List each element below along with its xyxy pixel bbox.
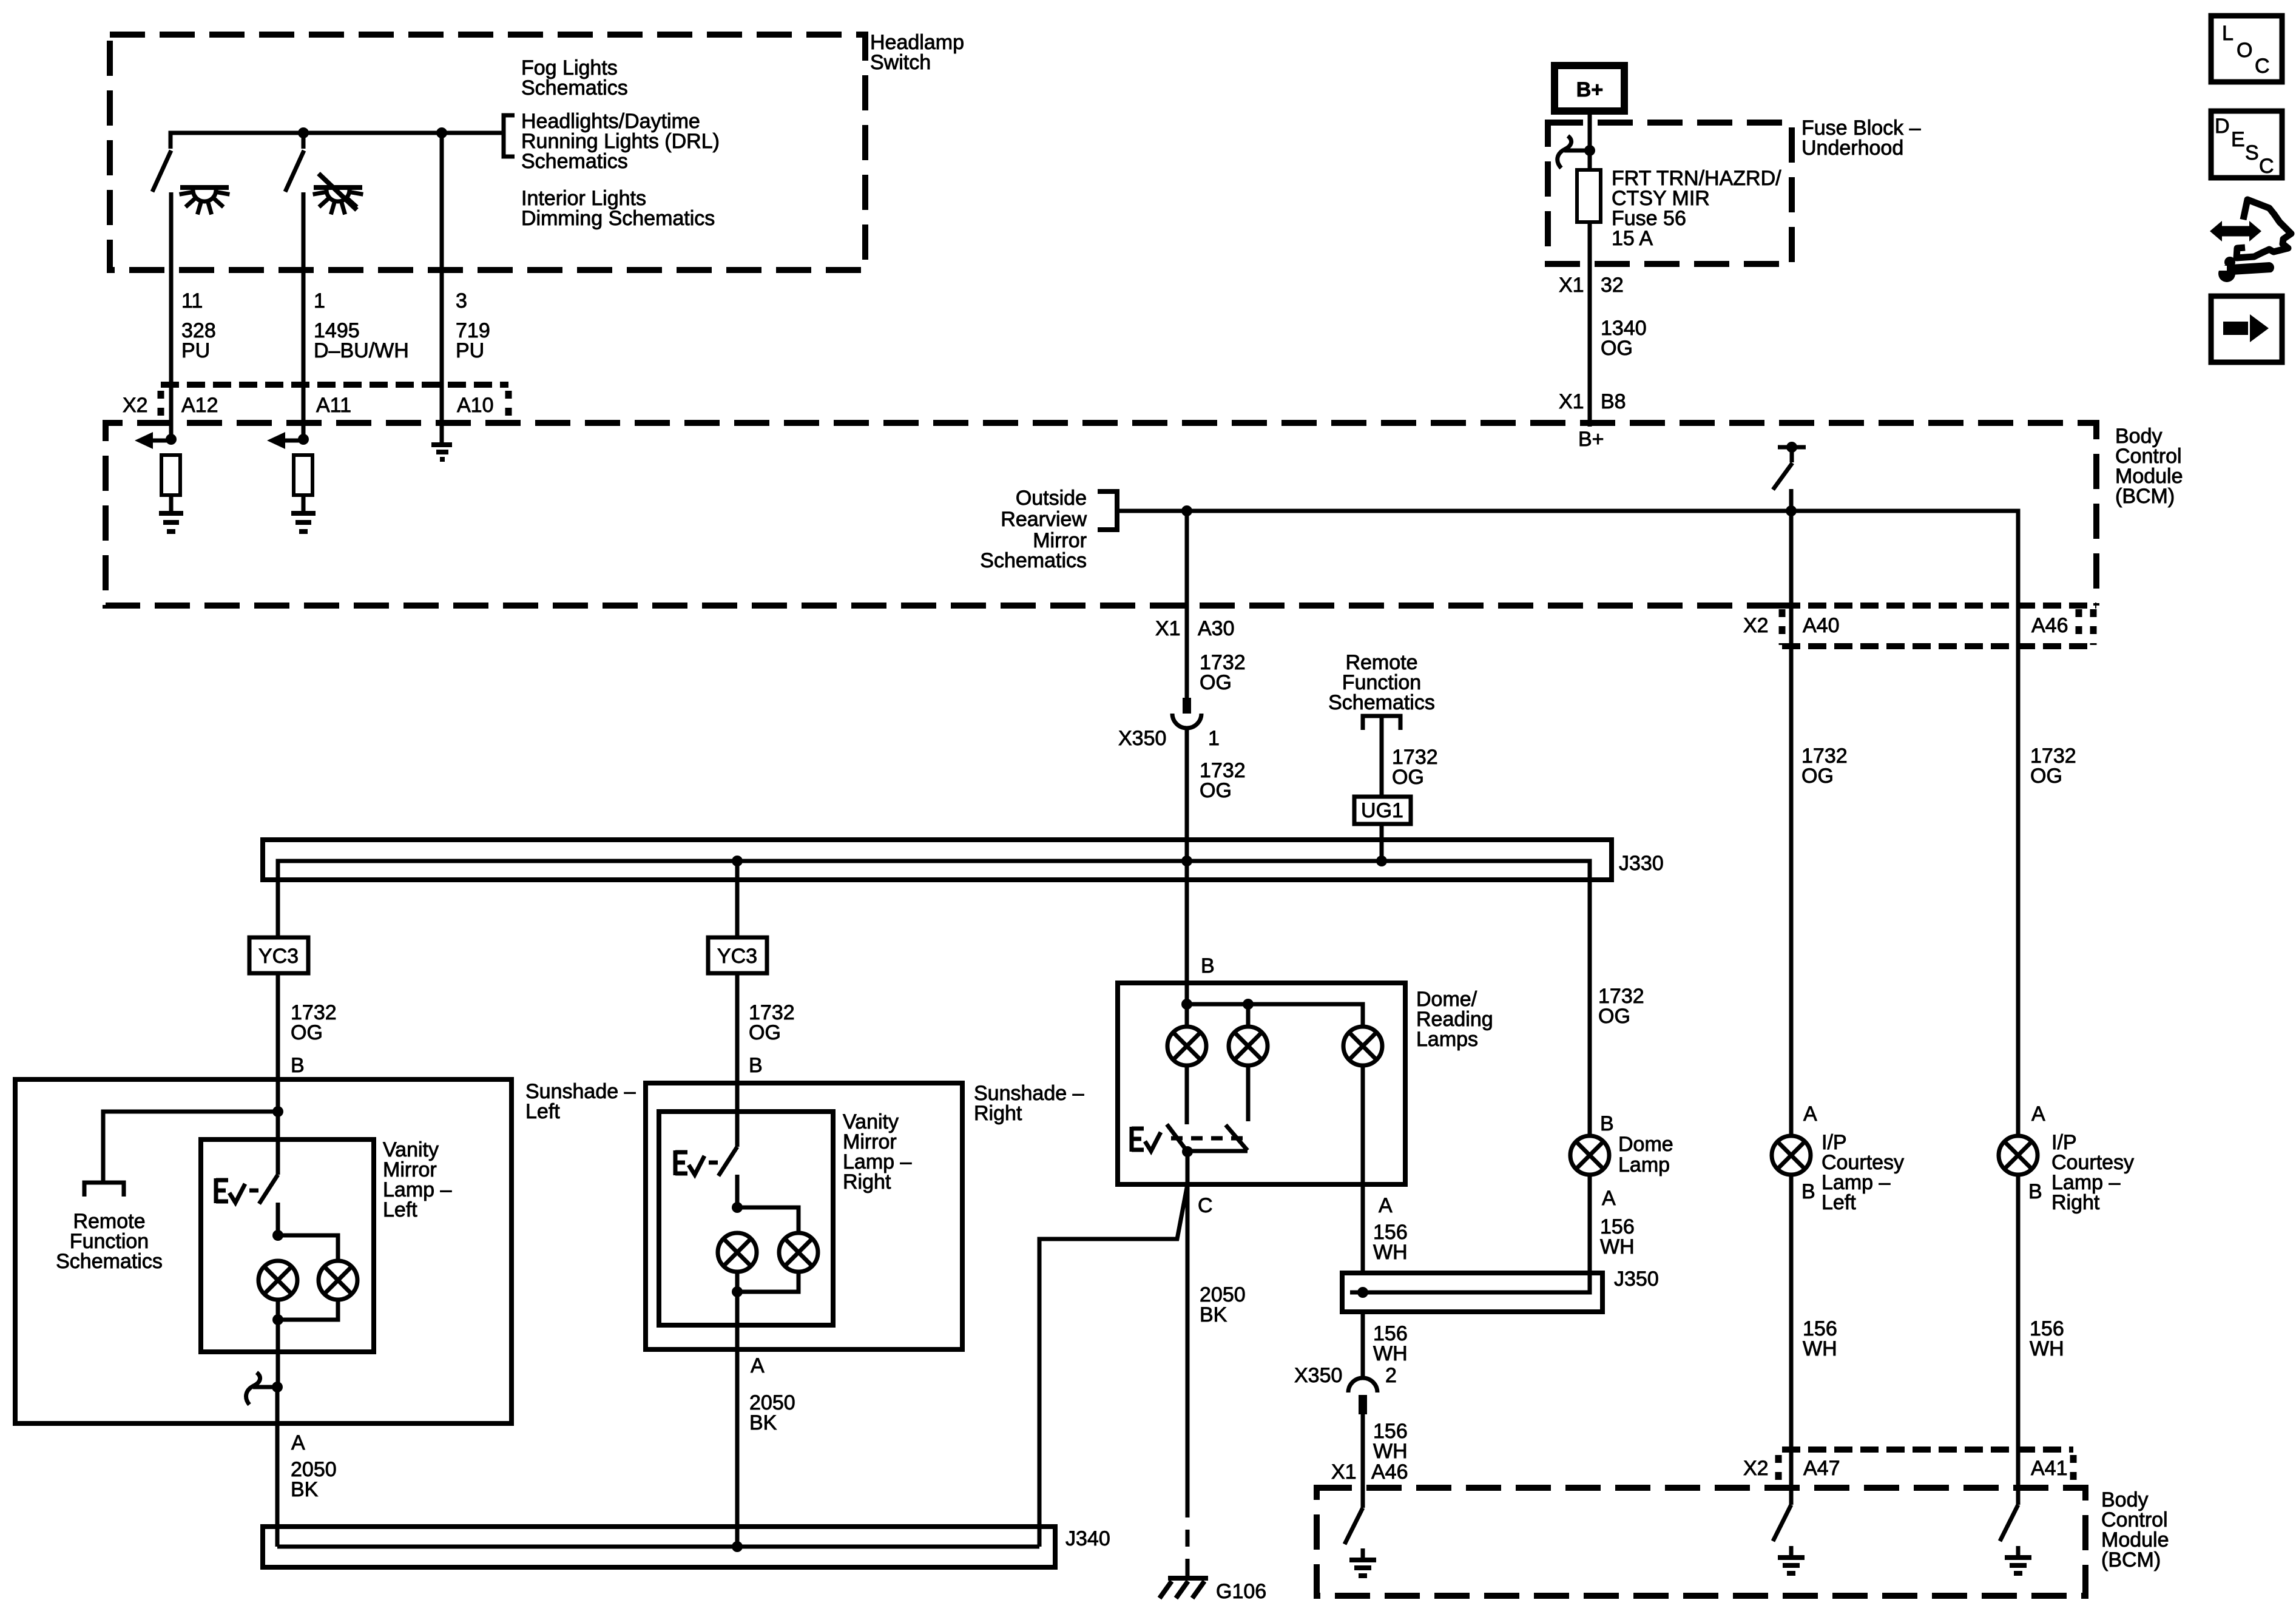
wire: pin 11 down to BCM: [169, 192, 174, 439]
svg-text:A46: A46: [1371, 1460, 1408, 1484]
fuse block underhood label: [1801, 116, 1921, 160]
splice pack J340 outline: [263, 1527, 1055, 1567]
svg-text:A46: A46: [2031, 614, 2068, 637]
svg-text:A: A: [1803, 1102, 1817, 1126]
svg-text:OG: OG: [1801, 765, 1834, 788]
svg-text:B: B: [749, 1054, 763, 1077]
switch to ground (A41): [2000, 1505, 2018, 1541]
wire: pin 1 down to BCM: [302, 192, 306, 439]
option connector UG1 box: [1354, 797, 1411, 824]
wire: vanity switch left to lamps: [276, 1203, 280, 1235]
outside rearview mirror schematics text: [980, 487, 1087, 572]
svg-text:S: S: [2245, 141, 2259, 164]
node junction dome feed 2: [1243, 999, 1254, 1010]
lamp dome bulb 2: [1229, 1027, 1268, 1065]
dome reading lamps label: [1416, 988, 1493, 1051]
wire: courtesy left down to A47: [1789, 1175, 1794, 1505]
wire: pin 3 down to ground: [440, 133, 444, 444]
svg-text:A10: A10: [457, 394, 494, 417]
wire: YC3 left down to sunshade left: [276, 973, 280, 1112]
fuse block underhood dashed box: [1548, 123, 1792, 264]
connector label X1 B8: [1559, 390, 1626, 413]
splice pack J350 internal bus and riser: [1350, 1175, 1590, 1292]
svg-text:Left: Left: [383, 1198, 417, 1221]
wire: stub to reading bulb 2: [1246, 1004, 1251, 1026]
lamp dome bulb 3: [1343, 1027, 1382, 1065]
wire: vanity right bulbs bottom join: [737, 1272, 799, 1292]
svg-text:Left: Left: [1822, 1191, 1856, 1214]
wire: dome lamps internal feed: [1187, 1004, 1363, 1026]
svg-text:OG: OG: [1200, 779, 1232, 802]
svg-text:WH: WH: [1600, 1235, 1635, 1258]
svg-text:OG: OG: [1200, 671, 1232, 694]
svg-text:WH: WH: [2030, 1337, 2064, 1360]
node junction A11 wire: [298, 434, 309, 445]
node junction vanity left lamps top: [272, 1230, 283, 1241]
svg-text:B: B: [2028, 1180, 2042, 1203]
svg-text:B: B: [291, 1054, 305, 1077]
wire label 2050 BK (dome C): [1200, 1283, 1246, 1326]
svg-text:J330: J330: [1619, 852, 1664, 875]
svg-text:E: E: [2231, 128, 2245, 151]
splice pack J350 outline: [1342, 1273, 1602, 1312]
switch SW2 interior dimming blade: [285, 150, 304, 192]
lamp icon 1 (panel lamp symbol): [180, 187, 230, 214]
node junction J330 UG1 wire: [1376, 856, 1387, 866]
wire label 1732 OG (A30): [1200, 651, 1246, 694]
wire: courtesy right down to A41: [2016, 1175, 2021, 1505]
ground inside BCM (A46): [1349, 1548, 1376, 1576]
connector label X1 32: [1559, 274, 1624, 297]
icon LOC box: [2211, 16, 2282, 82]
wire: C down toward G106: [1186, 1184, 1190, 1501]
wire label 156 WH (A41): [2030, 1317, 2064, 1360]
wire: A30 output down: [1185, 511, 1189, 698]
svg-text:PU: PU: [181, 339, 210, 362]
node junction sunshade left feed: [272, 1106, 283, 1117]
resistor (A12 load): [161, 455, 180, 495]
icon wiring repair harness outline: [2237, 200, 2291, 258]
connector labels X2 A12 A11 A10: [123, 394, 494, 417]
svg-text:BK: BK: [1200, 1303, 1227, 1326]
svg-text:1: 1: [314, 289, 325, 312]
svg-text:B+: B+: [1578, 428, 1604, 451]
wire: branch to remote function bracket: [103, 1112, 278, 1183]
node junction vanity right lamps bottom: [732, 1286, 743, 1297]
node junction on bus (wire 3): [436, 127, 447, 138]
wire: sunshade left A down to J340: [275, 1387, 280, 1547]
svg-text:Lamps: Lamps: [1416, 1028, 1478, 1051]
svg-text:B: B: [1600, 1112, 1614, 1135]
body control module BCM bottom dashed outline: [1317, 1488, 2085, 1596]
dome lamp label: [1618, 1133, 1673, 1176]
lamp dome lamp: [1570, 1136, 1609, 1175]
wire label 156 WH (bulb3): [1373, 1221, 1408, 1264]
IP courtesy lamp left label: [1822, 1131, 1904, 1214]
wire label 1732 OG (UG1): [1392, 746, 1438, 789]
wire: UG1 to J330 splice: [1380, 824, 1384, 861]
svg-text:Schematics: Schematics: [56, 1250, 163, 1273]
lamp IP courtesy lamp left: [1772, 1136, 1811, 1175]
bracket to DRL schematics: [504, 115, 515, 157]
wire label 328 PU: [181, 319, 216, 362]
node junction vanity left lamps bottom: [272, 1314, 283, 1325]
dome switch EV symbol: [1132, 1127, 1161, 1152]
lamp vanity left bulb 1: [258, 1261, 297, 1300]
wire label 1732 OG (right YC3): [749, 1001, 795, 1044]
connector labels X2 A47 A41: [1743, 1457, 2068, 1480]
wire label 719 PU: [456, 319, 490, 362]
wire: bulb2 down stub: [1246, 1065, 1251, 1121]
svg-text:C: C: [2255, 55, 2270, 78]
vanity mirror lamp left label: [383, 1138, 451, 1221]
dome switch contact bar: [1187, 1149, 1248, 1153]
ground under A11 resistor: [291, 495, 316, 532]
switch SW2 stub: [302, 133, 306, 149]
svg-text:BK: BK: [749, 1411, 777, 1434]
svg-text:Right: Right: [974, 1102, 1022, 1125]
svg-text:Dome: Dome: [1618, 1133, 1673, 1156]
wire: J350 down to X350-2: [1361, 1312, 1365, 1378]
remote function schematics text (UG1): [1328, 651, 1435, 714]
vanity switch right blade: [718, 1147, 737, 1176]
svg-text:A30: A30: [1198, 617, 1235, 640]
wire: vanity left down to clip: [276, 1320, 280, 1387]
fuse 56 value label: [1612, 167, 1781, 250]
svg-text:X2: X2: [1743, 1457, 1769, 1480]
svg-text:15 A: 15 A: [1612, 227, 1653, 250]
svg-text:Right: Right: [2051, 1191, 2100, 1214]
BCM label top right: [2115, 425, 2183, 508]
node junction rail to A30: [1181, 505, 1192, 516]
vanity switch left EV symbol: [216, 1178, 258, 1203]
connector label X1 A46: [1331, 1460, 1408, 1484]
node junction J340: [732, 1541, 743, 1552]
wire: remote function feed to UG1: [1380, 716, 1384, 797]
svg-text:A47: A47: [1803, 1457, 1840, 1480]
svg-text:11: 11: [181, 289, 203, 312]
fog lights schematics reference text: [521, 56, 628, 100]
connector row X2 A12 A11 A10 dotted box: [161, 385, 508, 417]
svg-text:Rearview: Rearview: [1001, 508, 1087, 531]
svg-text:BK: BK: [291, 1478, 319, 1501]
svg-text:(BCM): (BCM): [2101, 1548, 2161, 1571]
vanity mirror lamp right box: [659, 1112, 833, 1325]
connector label X1 A30: [1155, 617, 1235, 640]
svg-text:A: A: [1602, 1187, 1616, 1210]
ground under A12 resistor: [159, 495, 183, 532]
svg-text:Right: Right: [843, 1170, 891, 1193]
vanity switch right EV symbol: [675, 1150, 718, 1175]
svg-text:X1: X1: [1155, 617, 1181, 640]
wire: X350-2 down to BCM A46: [1361, 1414, 1365, 1508]
lamp vanity right bulb 2: [779, 1233, 818, 1272]
wire: J330 to YC3 right: [735, 861, 740, 937]
wire label 156 WH (A47): [1803, 1317, 1837, 1360]
svg-text:X2: X2: [123, 394, 148, 417]
splice pack J330 internal bus and risers: [278, 861, 1590, 1136]
svg-text:A12: A12: [181, 394, 218, 417]
svg-text:A40: A40: [1803, 614, 1840, 637]
icon wiring repair wrench: [2212, 257, 2274, 282]
svg-text:B8: B8: [1601, 390, 1626, 413]
wire: vanity switch right to lamps: [735, 1175, 740, 1207]
node junction vanity right lamps top: [732, 1202, 743, 1213]
svg-text:L: L: [2222, 22, 2234, 45]
wire: courtesy rail inside BCM: [1117, 511, 2018, 1135]
svg-text:X350: X350: [1118, 727, 1166, 750]
svg-text:OG: OG: [1601, 337, 1633, 360]
connector X350 pin 2: [1348, 1378, 1377, 1414]
wire label 156 WH (dome lamp): [1600, 1215, 1635, 1258]
node junction rail to A40: [1786, 505, 1797, 516]
ground A10: [431, 445, 452, 459]
connector label X350 2: [1294, 1364, 1397, 1387]
chassis ground G106: [1160, 1578, 1208, 1598]
svg-text:J340: J340: [1065, 1527, 1110, 1550]
headlamp switch label: [870, 31, 964, 74]
svg-text:A41: A41: [2031, 1457, 2068, 1480]
svg-text:YC3: YC3: [717, 945, 757, 968]
svg-text:PU: PU: [456, 339, 484, 362]
wire: C jog to J340: [1039, 1184, 1187, 1547]
B+ power symbol box: [1555, 66, 1624, 111]
svg-text:OG: OG: [1392, 766, 1424, 789]
sunshade right label: [974, 1082, 1084, 1125]
svg-text:Schematics: Schematics: [521, 76, 628, 100]
dome switch blade 2: [1226, 1125, 1248, 1150]
wire: vanity left bulbs bottom join: [278, 1300, 338, 1320]
svg-text:G106: G106: [1216, 1580, 1266, 1603]
arrow out (A11 signal): [267, 432, 303, 449]
node junction J330 A30 wire: [1181, 856, 1192, 866]
svg-text:A: A: [291, 1431, 305, 1454]
node junction on bus (switch 2): [298, 127, 309, 138]
wire label 2050 BK (left): [291, 1458, 337, 1501]
svg-text:32: 32: [1601, 274, 1624, 297]
wire dashed to G106: [1186, 1501, 1190, 1576]
svg-text:1: 1: [1208, 727, 1220, 750]
option connector YC3 left: [249, 937, 308, 973]
svg-text:A: A: [1379, 1194, 1393, 1217]
dome switch blade 1: [1167, 1124, 1187, 1152]
svg-text:OG: OG: [2030, 765, 2062, 788]
remote function schematics text (left): [56, 1210, 163, 1273]
svg-text:X2: X2: [1743, 614, 1769, 637]
svg-text:Schematics: Schematics: [1328, 691, 1435, 714]
wire label 156 WH (A46): [1373, 1420, 1408, 1463]
connector X350 pin 1: [1172, 698, 1201, 728]
option connector YC3 right: [708, 937, 767, 973]
wire: branch to right bulb (right vanity): [737, 1207, 799, 1232]
wire: branch to right bulb (left vanity): [278, 1235, 338, 1260]
wire label 1732 OG (dome lamp feed): [1598, 985, 1644, 1028]
bracket from remote function schematics: [1363, 716, 1400, 730]
svg-text:X1: X1: [1559, 390, 1584, 413]
svg-text:A: A: [2031, 1102, 2045, 1126]
switch inside BCM (B+ rail): [1773, 442, 1806, 511]
wire label 156 WH (below J350): [1373, 1322, 1408, 1365]
svg-text:YC3: YC3: [258, 945, 299, 968]
clip tap symbol (sunshade left): [246, 1372, 283, 1405]
connector row X2 A47 A41 dotted box: [1778, 1450, 2073, 1482]
bracket to outside rearview mirror schematics: [1098, 491, 1117, 530]
pin number labels 11 1 3: [181, 289, 467, 312]
vanity mirror lamp right label: [843, 1110, 911, 1193]
node junction J330 right YC3: [732, 856, 743, 866]
icon DESC box: [2211, 111, 2282, 178]
wire label 1732 OG (A40): [1801, 744, 1848, 788]
dome switch dashed link: [1171, 1136, 1244, 1141]
sunshade left label: [525, 1080, 636, 1123]
BCM bottom label: [2101, 1488, 2169, 1571]
fuse 56 element: [1577, 170, 1601, 222]
sunshade left box: [15, 1079, 512, 1423]
wire: bulb1 down to switch: [1185, 1065, 1189, 1124]
svg-text:Underhood: Underhood: [1801, 137, 1903, 160]
svg-text:A: A: [751, 1354, 765, 1377]
interior lights dimming reference text: [521, 187, 715, 230]
ground inside BCM (A41): [2005, 1546, 2031, 1573]
vanity switch left blade: [259, 1175, 278, 1204]
wire: X350-1 down to dome lamps B: [1185, 728, 1189, 1026]
wire: YC3 right down to sunshade right: [735, 973, 740, 1147]
node junction A12 wire: [166, 434, 177, 445]
wire label 1340 OG: [1601, 317, 1647, 360]
svg-text:X1: X1: [1559, 274, 1584, 297]
svg-text:WH: WH: [1803, 1337, 1837, 1360]
svg-text:C: C: [2259, 155, 2274, 178]
svg-text:X350: X350: [1294, 1364, 1342, 1387]
lamp vanity left bulb 2: [319, 1261, 357, 1300]
svg-text:Lamp: Lamp: [1618, 1153, 1670, 1176]
wire label 1732 OG (A46 right): [2030, 744, 2076, 788]
svg-text:WH: WH: [1373, 1342, 1408, 1365]
icon wiring repair double arrow: [2210, 221, 2261, 241]
arrow out (A12 signal): [135, 432, 171, 449]
svg-text:Outside: Outside: [1016, 487, 1087, 510]
svg-text:2: 2: [1385, 1364, 1397, 1387]
svg-text:Dimming Schematics: Dimming Schematics: [521, 207, 715, 230]
wire label 2050 BK (right): [749, 1391, 795, 1434]
clip tap symbol at fuse feed: [1558, 136, 1595, 168]
svg-text:WH: WH: [1373, 1241, 1408, 1264]
switch SW1 fog lights blade: [152, 150, 171, 192]
wire: dome switch common C: [1186, 1152, 1190, 1184]
svg-text:Schematics: Schematics: [521, 150, 628, 173]
body control module BCM dashed outline: [106, 423, 2096, 606]
splice pack J330 outline: [263, 840, 1612, 880]
svg-text:J350: J350: [1614, 1268, 1659, 1291]
svg-text:D: D: [2215, 115, 2230, 138]
svg-text:D–BU/WH: D–BU/WH: [314, 339, 409, 362]
bracket to remote function schematics (left): [84, 1183, 124, 1197]
connector labels X2 A40 A46: [1743, 614, 2068, 637]
svg-text:OG: OG: [291, 1021, 323, 1044]
svg-text:B: B: [1801, 1180, 1815, 1203]
lamp IP courtesy lamp right: [1999, 1136, 2038, 1175]
wire: B+ feed down through fuse to BCM B8: [1588, 111, 1592, 427]
svg-text:C: C: [1198, 1194, 1213, 1217]
icon continue arrow box: [2211, 296, 2282, 362]
svg-text:UG1: UG1: [1361, 799, 1403, 822]
switch to ground (A46): [1345, 1508, 1363, 1544]
wire: bulb3 down to J350: [1361, 1065, 1365, 1273]
resistor (A11 load): [294, 455, 312, 495]
wire label 1732 OG (left YC3): [291, 1001, 337, 1044]
wire label 1495 D-BU/WH: [314, 319, 409, 362]
dome reading lamps box: [1118, 983, 1405, 1184]
splice pack J340 internal bus: [277, 1545, 1039, 1549]
svg-text:WH: WH: [1373, 1440, 1408, 1463]
vanity mirror lamp left box: [201, 1139, 374, 1352]
lamp dome bulb 1: [1167, 1027, 1206, 1065]
svg-text:X1: X1: [1331, 1460, 1357, 1484]
svg-text:OG: OG: [749, 1021, 781, 1044]
node junction dome feed 1: [1181, 999, 1192, 1010]
wire label 1732 OG (below X350): [1200, 759, 1246, 802]
connector row X2 A40 A46 dotted box: [1782, 606, 2096, 646]
ground inside BCM (A47): [1778, 1546, 1805, 1573]
svg-text:B: B: [1201, 954, 1215, 977]
switch to ground (A47): [1773, 1505, 1791, 1541]
svg-text:A11: A11: [316, 394, 351, 417]
wire: sunshade right A down to J340: [735, 1292, 740, 1547]
node junction J350: [1357, 1287, 1368, 1298]
lamp icon 2 with dimming slash: [313, 174, 363, 214]
connector label X350 1: [1118, 727, 1220, 750]
IP courtesy lamp right label: [2051, 1131, 2134, 1214]
wire: A40 down to courtesy lamp left: [1789, 511, 1794, 1135]
svg-text:OG: OG: [1598, 1005, 1630, 1028]
svg-text:(BCM): (BCM): [2115, 485, 2175, 508]
lamp vanity right bulb 1: [718, 1233, 757, 1272]
svg-text:3: 3: [456, 289, 467, 312]
svg-text:O: O: [2237, 39, 2252, 62]
svg-text:Switch: Switch: [870, 51, 931, 74]
svg-text:B+: B+: [1576, 78, 1603, 101]
wire: headlamp switch feed bus: [171, 133, 504, 149]
dome switch pivot: [1182, 1146, 1193, 1157]
svg-text:Left: Left: [525, 1100, 560, 1123]
sunshade right box: [646, 1083, 962, 1349]
headlights DRL schematics reference text: [521, 110, 720, 173]
svg-text:Schematics: Schematics: [980, 549, 1087, 572]
headlamp switch module box: [110, 35, 865, 270]
wire: feed into vanity switch left: [276, 1112, 280, 1175]
